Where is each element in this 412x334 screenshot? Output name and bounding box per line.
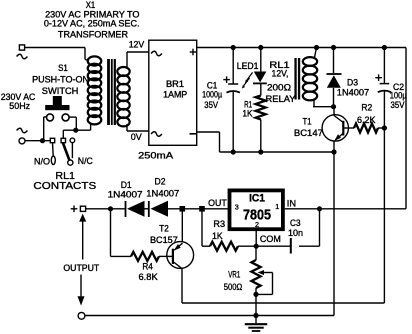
svg-text:1K: 1K xyxy=(242,109,252,119)
svg-text:2: 2 xyxy=(255,220,259,229)
svg-text:100µ: 100µ xyxy=(390,90,407,100)
svg-text:6.2K: 6.2K xyxy=(357,115,376,125)
svg-text:COM: COM xyxy=(260,234,281,244)
svg-text:1AMP: 1AMP xyxy=(163,89,187,99)
svg-text:CONTACTS: CONTACTS xyxy=(33,180,96,192)
svg-text:12V: 12V xyxy=(129,40,145,50)
svg-text:IC1: IC1 xyxy=(249,192,265,204)
svg-text:TRANSFORMER: TRANSFORMER xyxy=(58,30,128,40)
svg-text:S1: S1 xyxy=(58,63,68,73)
svg-text:T1: T1 xyxy=(303,116,312,126)
svg-text:3: 3 xyxy=(235,203,239,212)
svg-text:12V,: 12V, xyxy=(272,69,289,79)
svg-text:OUT: OUT xyxy=(208,198,227,208)
svg-text:1K: 1K xyxy=(212,231,223,241)
svg-text:50Hz: 50Hz xyxy=(9,101,30,111)
svg-text:R2: R2 xyxy=(361,102,372,112)
svg-text:D1: D1 xyxy=(121,180,132,190)
svg-text:1N4007: 1N4007 xyxy=(146,189,179,199)
svg-text:R4: R4 xyxy=(142,262,153,272)
svg-text:D3: D3 xyxy=(347,77,358,87)
svg-text:35V: 35V xyxy=(391,100,405,110)
svg-text:OUTPUT: OUTPUT xyxy=(63,263,100,273)
svg-text:500Ω: 500Ω xyxy=(224,282,243,292)
svg-text:N/O: N/O xyxy=(34,157,50,167)
svg-text:D2: D2 xyxy=(155,176,166,186)
svg-text:0V: 0V xyxy=(131,132,142,142)
svg-text:250mA: 250mA xyxy=(138,150,173,160)
svg-text:1000µ: 1000µ xyxy=(202,90,222,100)
svg-text:RELAY: RELAY xyxy=(266,94,296,104)
svg-text:LED1: LED1 xyxy=(237,61,259,71)
svg-text:X1: X1 xyxy=(86,0,96,10)
svg-text:N/C: N/C xyxy=(78,156,94,166)
svg-text:35V: 35V xyxy=(204,100,218,110)
svg-text:BC147: BC147 xyxy=(294,128,323,138)
svg-text:C3: C3 xyxy=(290,218,301,228)
svg-text:IN: IN xyxy=(287,199,296,209)
svg-text:BR1: BR1 xyxy=(166,79,184,89)
svg-text:R3: R3 xyxy=(213,219,225,229)
svg-text:200Ω: 200Ω xyxy=(267,83,291,93)
svg-text:SWITCH: SWITCH xyxy=(42,86,79,96)
svg-text:0-12V AC, 250mA SEC.: 0-12V AC, 250mA SEC. xyxy=(44,18,140,28)
svg-text:1N4007: 1N4007 xyxy=(108,190,143,200)
svg-text:BC157: BC157 xyxy=(150,235,178,245)
svg-text:PUSH-TO-ON: PUSH-TO-ON xyxy=(32,75,89,85)
svg-text:1: 1 xyxy=(275,202,279,211)
svg-text:T2: T2 xyxy=(159,223,169,233)
svg-text:VR1: VR1 xyxy=(228,269,240,279)
svg-text:10n: 10n xyxy=(288,228,303,238)
svg-text:6.8K: 6.8K xyxy=(139,272,158,282)
svg-text:1N4007: 1N4007 xyxy=(337,88,369,98)
